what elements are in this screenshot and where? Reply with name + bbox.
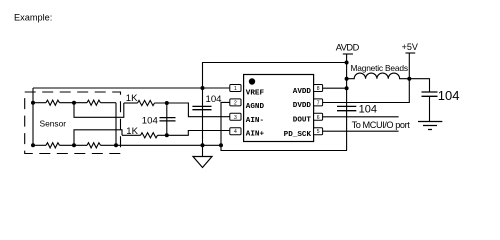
node ground rail triangle junction (201, 143, 205, 147)
wire bridge top middle (60, 102, 88, 104)
svg-text:AVDD: AVDD (336, 43, 360, 53)
svg-text:8: 8 (317, 86, 320, 92)
power +5V tick (406, 52, 416, 54)
wire PD_SCK (323, 130, 399, 132)
wire DOUT (323, 116, 399, 118)
wire to resistor R2 (122, 134, 141, 136)
svg-text:Magnetic Beads: Magnetic Beads (351, 63, 409, 73)
svg-text:+5V: +5V (402, 42, 418, 52)
wire bridge right column (115, 103, 117, 146)
svg-text:104: 104 (142, 116, 159, 127)
power AVDD tick (343, 53, 353, 55)
svg-text:AGND: AGND (246, 103, 265, 111)
capacitor C2 104 vref bypass (192, 88, 211, 145)
node AVDD inductor junction (345, 77, 349, 81)
wire pin8 to AVDD rail (323, 87, 347, 89)
wire VREF net (node A up to pin1) (33, 87, 230, 89)
node pin8 AVDD junction (345, 86, 349, 90)
svg-text:Example:: Example: (14, 12, 52, 22)
sensor dashed box (25, 92, 121, 154)
op-amp U1 ADC chip body (244, 75, 314, 142)
resistor bridge top-right (87, 100, 100, 105)
svg-text:3: 3 (234, 115, 237, 121)
node ground rail AGND junction (219, 143, 223, 147)
capacitor C3 104 avdd bypass (337, 106, 356, 110)
pin 7 box (314, 99, 323, 107)
svg-text:AVDD: AVDD (293, 88, 312, 96)
svg-text:1: 1 (234, 86, 237, 92)
wire bridge top to right column (101, 102, 117, 104)
node bridge top-left (31, 101, 35, 105)
pin 2 box (230, 99, 241, 107)
wire bridge bottom middle (60, 144, 88, 146)
capacitor C4 104 supply (422, 92, 438, 96)
svg-text:1K: 1K (126, 93, 138, 104)
resistor bridge top-left (46, 100, 59, 105)
svg-text:104: 104 (206, 94, 223, 105)
pin 6 box (314, 113, 323, 121)
ground symbol bars (418, 122, 442, 130)
pin 4 box (230, 128, 241, 136)
wire ground rail bottom (33, 144, 46, 146)
wire S+ exit route (74, 103, 124, 118)
wire C4 to ground (429, 96, 431, 121)
resistor bridge bottom-left (46, 143, 59, 148)
wire R2 to AIN+ (158, 131, 230, 136)
capacitor C1 104 differential (160, 103, 176, 135)
svg-text:VREF: VREF (246, 89, 265, 97)
wire ground rail to AGND column (101, 144, 222, 146)
resistor bridge bottom-right (87, 143, 100, 148)
node bridge bottom-left (31, 143, 35, 147)
pin 1 marker dot (249, 78, 255, 84)
wire bridge top rail (33, 102, 46, 104)
node S+ junction (72, 101, 76, 105)
node S- junction (72, 143, 76, 147)
wire VREF to AVDD top link (203, 63, 347, 89)
pin 8 box (314, 85, 323, 93)
node inductor +5V junction (407, 77, 411, 81)
svg-text:DOUT: DOUT (293, 117, 312, 125)
wire AGND pin2 route (221, 102, 347, 150)
wire R1 to AIN- (155, 103, 230, 117)
svg-text:PD_SCK: PD_SCK (284, 131, 312, 139)
wire to resistor R1 (124, 102, 138, 104)
node AVDD top-link junction (345, 61, 349, 65)
svg-text:Sensor: Sensor (40, 118, 67, 128)
svg-text:104: 104 (438, 88, 460, 103)
node R1 cap junction (165, 101, 169, 105)
svg-text:4: 4 (234, 129, 237, 135)
wire AVDD rail vertical (346, 54, 348, 151)
svg-text:2: 2 (234, 100, 237, 106)
svg-text:DVDD: DVDD (293, 102, 312, 110)
pin 3 box (230, 113, 241, 121)
svg-text:7: 7 (317, 100, 320, 106)
pin 5 box (314, 128, 323, 136)
resistor R1 1K (138, 100, 155, 105)
inductor L1 magnetic beads (347, 73, 410, 79)
pin 1 box (230, 85, 241, 93)
svg-text:AIN-: AIN- (246, 117, 264, 125)
node VREF junction (201, 86, 205, 90)
svg-text:5: 5 (317, 129, 320, 135)
ground triangle symbol (193, 145, 212, 167)
resistor R2 1K (141, 133, 158, 138)
svg-text:104: 104 (359, 104, 377, 116)
svg-text:AIN+: AIN+ (246, 131, 265, 139)
svg-text:6: 6 (317, 115, 320, 121)
wire +5V rail to DVDD (323, 53, 410, 103)
node bridge bottom-right (114, 143, 118, 147)
node R2 cap junction (165, 133, 169, 137)
svg-text:To MCUI/O port: To MCUI/O port (352, 120, 411, 130)
wire bridge left column (32, 88, 34, 145)
wire +5V to C4 (409, 79, 429, 92)
wire S- exit route (74, 130, 122, 146)
